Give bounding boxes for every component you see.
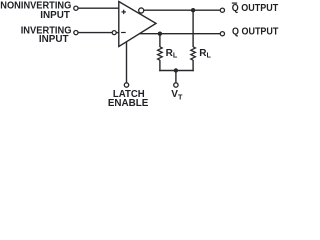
svg-text:L: L bbox=[207, 51, 212, 60]
plus marking bbox=[122, 10, 126, 14]
node: Q output terminal bbox=[220, 32, 224, 36]
node: noninverting input terminal bbox=[74, 6, 78, 10]
wire: inverting input to bubble bbox=[78, 32, 112, 34]
comparator U1 triangle bbox=[119, 2, 156, 47]
svg-text:ENABLE: ENABLE bbox=[108, 98, 149, 107]
resistor RL (right) bbox=[191, 47, 196, 60]
svg-text:INPUT: INPUT bbox=[40, 10, 70, 21]
node: inverting input terminal bbox=[74, 30, 78, 34]
label RL (left) bbox=[166, 48, 178, 60]
svg-text:T: T bbox=[178, 92, 183, 101]
node: Q-bar output terminal bbox=[220, 8, 224, 12]
label NONINVERTING INPUT bbox=[0, 0, 71, 21]
wire: VT tap bbox=[175, 71, 177, 83]
svg-text:Q OUTPUT: Q OUTPUT bbox=[232, 3, 278, 14]
label INVERTING INPUT bbox=[21, 25, 72, 45]
label VT bbox=[171, 89, 183, 101]
Q-bar output bubble bbox=[139, 8, 144, 13]
wire: Q-bar output line bbox=[144, 9, 220, 11]
wire: bottom rail joining both RL bbox=[159, 70, 194, 72]
node: latch enable terminal bbox=[124, 83, 128, 87]
inverting input bubble bbox=[112, 31, 116, 35]
node: VT terminal bbox=[174, 83, 178, 87]
svg-text:INPUT: INPUT bbox=[39, 34, 69, 45]
wire: left RL top lead bbox=[159, 34, 161, 47]
label RL (right) bbox=[199, 48, 211, 60]
resistor RL (left) bbox=[158, 47, 163, 60]
svg-text:Q OUTPUT: Q OUTPUT bbox=[232, 27, 278, 38]
label Q-bar OUTPUT bbox=[232, 3, 278, 14]
wire: right RL bottom lead bbox=[192, 60, 194, 71]
wire: right RL top lead (crosses Q line, no dot) bbox=[192, 10, 194, 47]
junction dot: Q line to left RL bbox=[158, 32, 162, 36]
wire: latch enable lead bbox=[126, 42, 128, 83]
wire: left RL bottom lead bbox=[159, 60, 161, 71]
wire: bubble to comparator bbox=[116, 32, 119, 34]
junction dot: Q-bar line to right RL bbox=[191, 8, 195, 12]
svg-text:L: L bbox=[173, 51, 178, 60]
wire: Q output line bbox=[139, 33, 220, 35]
label LATCH ENABLE bbox=[108, 89, 149, 109]
wire: noninverting input to comparator bbox=[78, 7, 119, 9]
junction dot: rail to VT tap bbox=[174, 68, 178, 72]
minus marking bbox=[121, 32, 126, 34]
